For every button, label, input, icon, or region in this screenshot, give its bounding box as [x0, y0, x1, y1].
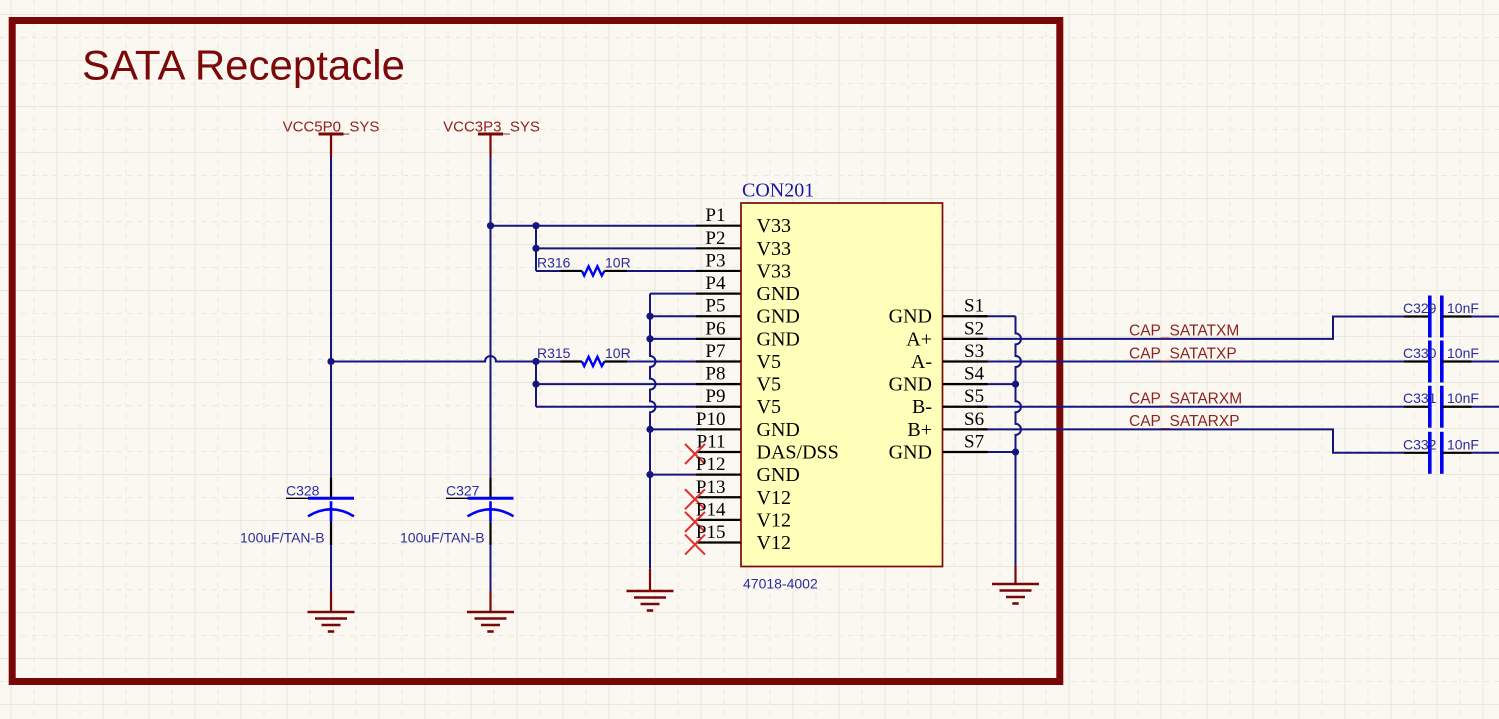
capacitor C330: [1404, 340, 1472, 382]
pin P8: [696, 383, 741, 385]
pin P12: [696, 474, 741, 476]
wire S7 row: [978, 451, 1016, 453]
svg-text:CON201: CON201: [742, 180, 814, 202]
svg-text:P4: P4: [705, 273, 726, 294]
svg-text:10nF: 10nF: [1447, 390, 1479, 406]
pin P4: [696, 292, 741, 294]
wire P1 row: [491, 225, 697, 227]
svg-text:10R: 10R: [605, 254, 631, 270]
svg-text:C329: C329: [1403, 300, 1437, 316]
gnd stem S bus: [1014, 566, 1016, 585]
junction P8/RCOL: [532, 381, 539, 388]
pin P11: [696, 451, 741, 453]
wire C329 out: [1472, 316, 1499, 318]
svg-text:P10: P10: [696, 409, 726, 430]
wire S4 row: [978, 383, 1016, 385]
wire VCC3P3 vertical: [490, 157, 492, 478]
svg-text:A+: A+: [906, 328, 932, 350]
wire P4 row: [650, 293, 696, 295]
pin P10: [696, 428, 741, 430]
sheet border: [12, 21, 1060, 682]
wire P6 row: [650, 338, 696, 340]
svg-text:GND: GND: [889, 374, 932, 396]
wire S bus vertical: [1016, 316, 1022, 565]
pin S7: [943, 451, 988, 453]
pin S1: [943, 315, 988, 317]
junction P6/GND bus: [646, 335, 653, 342]
capacitor C327: [468, 478, 514, 546]
label C328 underline: [286, 497, 308, 499]
wire C331 out: [1472, 406, 1499, 408]
svg-text:S3: S3: [964, 341, 984, 362]
pin S3: [943, 360, 988, 362]
capacitor C329: [1404, 296, 1472, 338]
pin S2: [943, 338, 988, 340]
junction S4/bus: [1012, 381, 1019, 388]
svg-text:CAP_SATATXM: CAP_SATATXM: [1129, 323, 1239, 340]
svg-text:V5: V5: [757, 396, 781, 418]
wire R315 to P7 pin: [627, 360, 696, 362]
gnd stem C328: [330, 591, 332, 612]
power VCC5P0_SYS bar: [319, 134, 344, 157]
wire P10 row: [650, 428, 696, 430]
svg-text:S4: S4: [964, 364, 985, 385]
no-connect X on P11: [685, 444, 705, 464]
wire C328 to gnd: [330, 545, 332, 591]
svg-text:10nF: 10nF: [1447, 436, 1479, 452]
svg-text:C331: C331: [1403, 390, 1437, 406]
wire VCC5P0 to R315 (hop over C327 line): [331, 356, 536, 362]
svg-text:C328: C328: [286, 483, 320, 499]
pin P1: [696, 225, 741, 227]
wire P5 row: [650, 315, 696, 317]
pin P5: [696, 315, 741, 317]
junction VCC3P3/P1 wire: [487, 222, 494, 229]
svg-text:S6: S6: [964, 409, 984, 430]
svg-text:V33: V33: [757, 238, 791, 260]
svg-text:S7: S7: [964, 432, 984, 453]
svg-text:P3: P3: [705, 250, 725, 271]
svg-text:V12: V12: [757, 487, 791, 509]
pin P9: [696, 406, 741, 408]
wire RCOL vertical P1-P3: [535, 226, 537, 271]
svg-text:A-: A-: [911, 351, 932, 373]
pin P3: [696, 270, 741, 272]
no-connect X on P15: [685, 535, 705, 555]
svg-text:GND: GND: [757, 419, 800, 441]
resistor R316: [536, 266, 627, 275]
pin P7: [696, 360, 741, 362]
capacitor C332: [1404, 432, 1472, 474]
wire P9 row: [536, 406, 696, 408]
pin S4: [943, 383, 988, 385]
wire VCC5P0 vertical: [330, 157, 332, 478]
svg-text:SATA Receptacle: SATA Receptacle: [82, 42, 405, 89]
svg-text:R315: R315: [537, 345, 571, 361]
gnd stem C327: [489, 591, 491, 612]
resistor R315: [536, 357, 627, 366]
junction P2/RCOL: [532, 245, 539, 252]
pin P13: [696, 496, 741, 498]
pin P2: [696, 247, 741, 249]
junction VCC5P0/P7 wire: [327, 358, 334, 365]
ground C327: [467, 612, 514, 632]
junction P12/GND bus: [646, 471, 653, 478]
capacitor C328: [308, 478, 354, 546]
svg-text:47018-4002: 47018-4002: [743, 576, 818, 592]
svg-text:P7: P7: [705, 341, 725, 362]
svg-text:B+: B+: [907, 419, 932, 441]
wire S1 to bus: [978, 315, 1016, 317]
pin P14: [696, 519, 741, 521]
wire GND bus vertical: [650, 294, 656, 569]
wire C332 out: [1472, 452, 1499, 454]
svg-text:R316: R316: [537, 254, 571, 270]
junction P10/GND bus: [646, 426, 653, 433]
no-connect X on P14: [685, 512, 705, 532]
gnd stem left bus: [649, 569, 651, 591]
svg-text:P1: P1: [705, 205, 725, 226]
power VCC3P3_SYS bar: [478, 134, 503, 157]
wire S3 to C330 (CAP_SATATXP): [978, 360, 1405, 362]
wire R316 to P3 pin: [627, 270, 696, 272]
pin S6: [943, 428, 988, 430]
no-connect X on P13: [685, 489, 705, 509]
wire RCOL vertical P7-P9: [535, 361, 537, 406]
svg-text:100uF/TAN-B: 100uF/TAN-B: [400, 530, 485, 546]
svg-text:P9: P9: [705, 386, 725, 407]
wire P2 row: [536, 247, 696, 249]
pin P6: [696, 338, 741, 340]
svg-text:P5: P5: [705, 296, 725, 317]
svg-text:C332: C332: [1403, 436, 1437, 452]
svg-text:C330: C330: [1403, 345, 1437, 361]
svg-text:CAP_SATATXP: CAP_SATATXP: [1129, 345, 1237, 362]
ground left bus: [627, 591, 674, 611]
svg-text:V33: V33: [757, 260, 791, 282]
junction P5/GND bus: [646, 313, 653, 320]
capacitor C331: [1404, 386, 1472, 428]
wire P12 row: [650, 474, 696, 476]
ground S bus: [992, 584, 1039, 604]
connector CON201 body: [741, 203, 943, 567]
junction P1/RCOL: [532, 222, 539, 229]
wire S5 to C331 (CAP_SATARXM): [978, 406, 1405, 408]
svg-text:P12: P12: [696, 454, 726, 475]
svg-text:10R: 10R: [605, 345, 631, 361]
svg-text:GND: GND: [889, 442, 932, 464]
svg-text:V12: V12: [757, 509, 791, 531]
svg-text:GND: GND: [757, 328, 800, 350]
svg-text:V5: V5: [757, 374, 781, 396]
svg-text:V12: V12: [757, 532, 791, 554]
svg-text:C327: C327: [446, 483, 480, 499]
svg-text:P2: P2: [705, 228, 725, 249]
svg-text:10nF: 10nF: [1447, 345, 1479, 361]
svg-text:CAP_SATARXM: CAP_SATARXM: [1129, 391, 1242, 408]
svg-text:S2: S2: [964, 318, 984, 339]
svg-text:100uF/TAN-B: 100uF/TAN-B: [240, 530, 325, 546]
svg-text:GND: GND: [757, 306, 800, 328]
svg-text:S1: S1: [964, 296, 984, 317]
pin S5: [943, 406, 988, 408]
wire P8 row: [536, 383, 696, 385]
wire S2 to C329 (CAP_SATATXM): [978, 317, 1405, 339]
junction S7/bus: [1012, 448, 1019, 455]
svg-text:CAP_SATARXP: CAP_SATARXP: [1129, 413, 1240, 430]
svg-text:B-: B-: [912, 396, 932, 418]
wire C330 out: [1472, 360, 1499, 362]
svg-text:GND: GND: [757, 464, 800, 486]
svg-text:DAS/DSS: DAS/DSS: [757, 442, 839, 464]
svg-text:S5: S5: [964, 386, 984, 407]
junction R315 left: [532, 358, 539, 365]
wire C327 to gnd: [490, 545, 492, 591]
svg-text:V33: V33: [757, 215, 791, 237]
pin P15: [696, 541, 741, 543]
svg-text:GND: GND: [757, 283, 800, 305]
wire S6 to C332 (CAP_SATARXP): [978, 429, 1405, 452]
label C327 underline: [446, 497, 468, 499]
svg-text:V5: V5: [757, 351, 781, 373]
svg-text:10nF: 10nF: [1447, 300, 1479, 316]
svg-text:GND: GND: [889, 306, 932, 328]
svg-text:P6: P6: [705, 318, 725, 339]
svg-text:P8: P8: [705, 364, 725, 385]
ground C328: [308, 612, 355, 632]
